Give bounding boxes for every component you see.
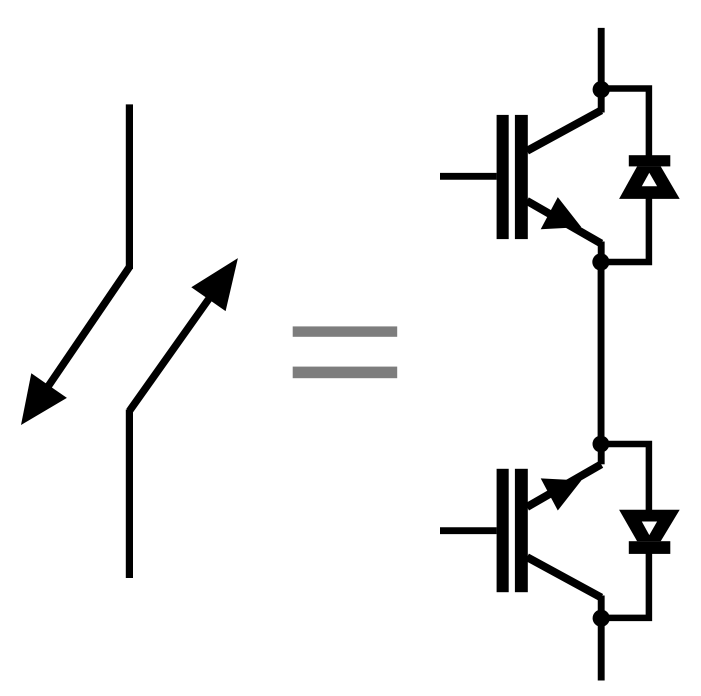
diode D1 cathode bar (629, 155, 671, 166)
wire node B to node C (598, 262, 605, 444)
transistor Q1 emitter wire (527, 201, 601, 262)
node B (middle junction upper) (592, 253, 609, 270)
wire top terminal (598, 28, 605, 90)
diode D1 triangle (619, 166, 680, 199)
diode D2 cathode bar (629, 541, 671, 554)
equals sign top bar (293, 326, 398, 336)
transistor Q2 body bar (515, 469, 528, 592)
wire diode D2 cathode to node D (601, 552, 649, 618)
node C (middle junction lower) (593, 436, 610, 453)
transistor Q1 body bar (515, 115, 528, 239)
equals sign bottom bar (293, 367, 398, 379)
transistor Q1 collector wire (527, 90, 601, 151)
node D (bottom junction) (593, 610, 610, 627)
switch S1 left arrowhead (21, 373, 67, 425)
wire diode D1 anode to node B (601, 197, 649, 262)
transistor Q1 gate wire (440, 173, 497, 180)
switch S1 upper lead wire (126, 104, 133, 269)
wire bottom terminal (598, 618, 605, 680)
transistor Q2 gate wire (440, 527, 497, 534)
transistor Q2 emitter wire (527, 444, 601, 507)
switch S1 lower lead wire (126, 410, 133, 579)
wire node C to diode D2 branch (601, 444, 649, 511)
switch S1 right arrowhead (191, 258, 238, 311)
diode D2 triangle (619, 510, 680, 542)
transistor Q1 gate bar (497, 115, 509, 239)
transistor Q2 gate bar (497, 469, 509, 592)
transistor Q2 emitter arrowhead (541, 478, 582, 510)
transistor Q2 collector wire (527, 557, 601, 618)
switch S1 left arrow shaft (45, 267, 129, 391)
wire node A to diode D1 branch (601, 89, 649, 158)
node A (top junction) (593, 81, 610, 98)
transistor Q1 emitter arrowhead (541, 197, 582, 229)
switch S1 right arrow shaft (129, 293, 213, 411)
